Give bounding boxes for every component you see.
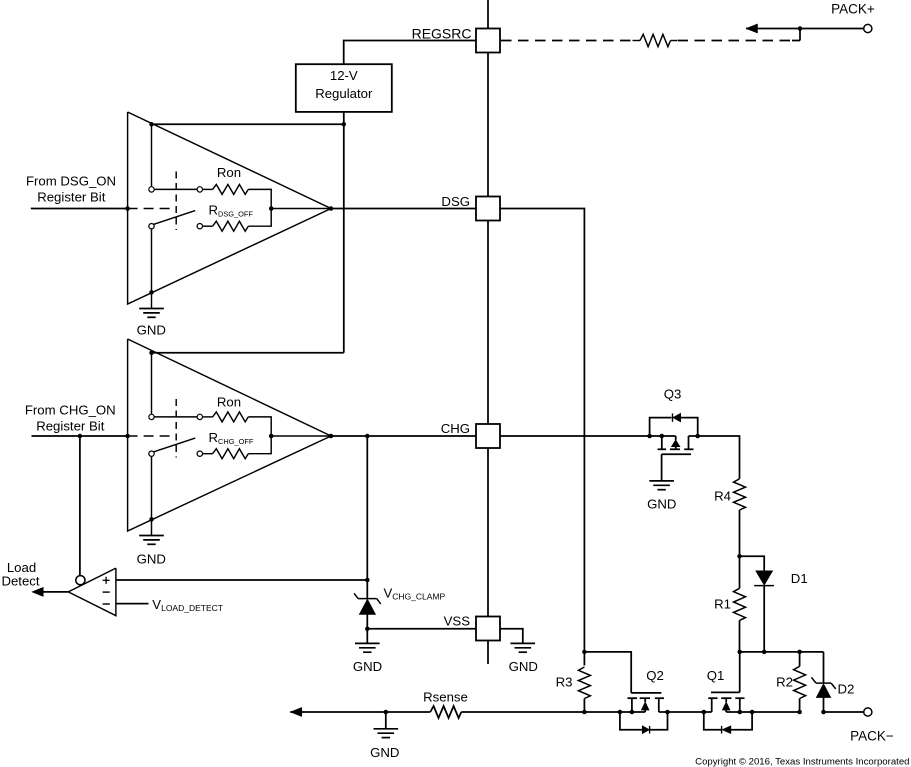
wire (dashed): switch control link (175, 399, 177, 458)
wire (dashed): control into driver (128, 435, 172, 437)
junction: D1 at gate node (762, 650, 767, 655)
wire: rail segment Q2 drain (659, 711, 704, 713)
wire: VSS pin to ground (500, 629, 523, 644)
arrow: to battery negative (290, 707, 302, 716)
junction: PACK+ dashed tap (798, 26, 803, 31)
switch contact (upper) (149, 187, 154, 192)
wire: gate feed from R1/D1 node (739, 652, 741, 693)
svg-text:D1: D1 (791, 571, 808, 586)
comparator input bubble (76, 576, 85, 585)
wire: rail to DSG driver supply (152, 123, 344, 125)
svg-text:From CHG_ON: From CHG_ON (25, 403, 116, 418)
wire: ground stem (151, 519, 153, 535)
diode Q3 body: anode triangle (673, 413, 681, 421)
ground (139, 535, 164, 537)
wire: rail segment Q1 left (704, 711, 712, 713)
wire (203, 225, 213, 227)
node DSG pin box (476, 197, 500, 221)
driver triangle body (128, 339, 331, 531)
svg-text:GND: GND (353, 659, 382, 674)
wire: ground stem (385, 712, 387, 729)
wire (203, 188, 213, 190)
arrow: load detect output (32, 587, 44, 596)
resistor R1 (739, 556, 741, 588)
resistor R4 (734, 479, 746, 510)
wire: R4 to node (739, 510, 741, 556)
wire: rail to CHG driver supply (152, 352, 344, 354)
wire (dashed): control into driver (128, 208, 172, 210)
wire: clamp node to VSS pin (367, 628, 476, 630)
wire: D2 to rail (823, 698, 825, 713)
wire: arrow line toward REGSRC (746, 28, 800, 30)
comparator U (load detect) (68, 568, 116, 616)
wire: CHG net down to clamp (366, 436, 368, 580)
junction: DSG gate node (582, 650, 587, 655)
wire (366, 614, 368, 629)
wire: closed switch path to Ron (154, 416, 197, 418)
junction: clamp node (365, 578, 370, 583)
wire (671, 40, 678, 42)
zener VCHG_CLAMP body (359, 599, 375, 614)
junction: VSS node (365, 627, 370, 632)
terminal PACK+ (864, 24, 872, 32)
wire: REGSRC to regulator (344, 41, 476, 65)
ground (649, 480, 674, 482)
wire (203, 453, 213, 455)
svg-text:GND: GND (370, 745, 399, 760)
svg-text:Rsense: Rsense (423, 689, 468, 704)
diode Q2 body: anode triangle (642, 726, 649, 734)
wire: gate feed from DSG node (584, 652, 631, 693)
wire: CHG pin to Q3 (500, 435, 676, 437)
svg-text:Detect: Detect (1, 573, 39, 588)
ground (139, 308, 164, 310)
resistor Roff (213, 221, 249, 231)
junction: R2 top (797, 650, 802, 655)
wire: rail to PACK- (824, 711, 864, 713)
ground (511, 642, 536, 644)
svg-text:PACK−: PACK− (850, 729, 894, 744)
wire: resistor outputs join (248, 417, 271, 454)
junction: system ground tap (384, 710, 389, 715)
12-V Regulator block (296, 64, 392, 112)
wire (203, 416, 213, 418)
svg-text:12-V: 12-V (330, 68, 358, 83)
wire (dashed): REGSRC to resistor (501, 40, 634, 42)
junction: Q3 bypass left (647, 434, 652, 439)
wire (dashed): resistor to PACK+ jog (678, 40, 794, 42)
junction: R2 rail (797, 710, 802, 715)
junction: Q2 bypass left (618, 710, 623, 715)
resistor Ron terminal (197, 187, 202, 192)
wire: comparator output (42, 591, 68, 593)
junction: Q3 bypass right / drain (695, 434, 700, 439)
wire: bottom rail left (290, 711, 430, 713)
junction: Q1 bypass right (750, 710, 755, 715)
wire: rail down to CHG driver (343, 124, 345, 352)
wire: node to D2 (823, 652, 825, 683)
zener D2 cathode bar (816, 682, 831, 684)
transistor Q3 channel segments (658, 448, 667, 450)
junction: D2 rail (821, 710, 826, 715)
wire: Q3 gate to ground (661, 454, 663, 481)
junction: CHG driver supply tap (149, 351, 154, 356)
junction: DSG driver supply tap (149, 122, 154, 127)
svg-text:Copyright © 2016, Texas Instru: Copyright © 2016, Texas Instruments Inco… (695, 757, 909, 767)
minus mark 1 (103, 591, 110, 593)
transistor Q3 body arrow (675, 436, 677, 440)
ground (355, 642, 380, 644)
junction: R4/R1/D1 node (737, 554, 742, 559)
wire: R3 stem top (583, 652, 585, 666)
junction: driver ground node (149, 290, 154, 295)
wire: CHG_ON to comparator (79, 436, 81, 576)
transistor Q1 body arrow (722, 702, 730, 710)
junction: input at driver edge (125, 206, 130, 211)
wire: jog down from junction (799, 29, 801, 41)
svg-text:R2: R2 (776, 675, 793, 690)
junction: regulator rail split (342, 122, 347, 127)
transistor Q3 gate bar (662, 453, 691, 455)
transistor Q2 channel segments (627, 697, 637, 699)
wire: switch common from supply (151, 124, 153, 186)
plus input mark (103, 579, 110, 581)
transistor Q3 drain contact + jog (688, 436, 690, 449)
wire: DSG pin to FET gate network (500, 209, 584, 652)
wire: DSG_ON input (31, 208, 128, 210)
diode D1 body (756, 571, 773, 585)
resistor Roff terminal (197, 224, 202, 229)
wire: main vertical bus (487, 0, 489, 664)
svg-text:Q2: Q2 (646, 668, 664, 683)
transistor Q1 gate bar (711, 691, 740, 693)
zener VCHG_CLAMP cathode bar (358, 598, 377, 600)
wire: lower contact to ground edge (151, 229, 153, 293)
junction: driver ground node (149, 517, 154, 522)
wire: ground stem (151, 292, 153, 308)
transistor Q1 source contact (711, 698, 713, 712)
arrow: current direction left (746, 24, 758, 33)
svg-text:PACK+: PACK+ (831, 2, 875, 17)
diode Q2 body: cathode bar (649, 726, 651, 734)
junction: driver output (329, 206, 334, 211)
wire: VLOAD_DETECT input (116, 603, 149, 605)
junction: load detect tap (78, 434, 83, 439)
svg-text:GND: GND (137, 322, 166, 337)
wire (633, 40, 641, 42)
wire: D1 to gate node (763, 586, 765, 652)
diode: Q1 body diode loop (704, 712, 722, 730)
svg-text:Register Bit: Register Bit (37, 190, 105, 205)
svg-text:Ron: Ron (217, 165, 241, 180)
wire: Q3 drain to R4 (698, 436, 740, 479)
wire: plus input from CHG net (116, 579, 367, 581)
resistor R2 (799, 652, 801, 666)
svg-text:Q3: Q3 (664, 387, 682, 402)
junction: R1/Q1 gate node (737, 650, 742, 655)
junction: Q1 drain (738, 710, 743, 715)
diode: Q2 body diode loop (620, 712, 643, 730)
diode D1 cathode bar (754, 585, 774, 587)
wire: tap to apex (271, 208, 331, 210)
wire: body to rail (644, 710, 646, 712)
node VSS pin box (476, 617, 500, 641)
svg-text:R3: R3 (556, 675, 573, 690)
junction: CHG clamp tap (365, 434, 370, 439)
wire: regulator output down (343, 112, 345, 124)
minus mark 2 (103, 603, 110, 605)
transistor Q2 body arrow (641, 702, 649, 710)
node REGSRC pin box (476, 29, 500, 53)
diode Q1 body: cathode bar (721, 726, 723, 734)
svg-text:VSS: VSS (444, 614, 471, 629)
wire: clamp ground stem (366, 629, 368, 644)
switch arm (open) (154, 211, 195, 225)
svg-text:GND: GND (647, 497, 676, 512)
junction: resistor tap (269, 206, 274, 211)
wire (792, 40, 800, 42)
svg-text:GND: GND (137, 551, 166, 566)
junction: driver output (329, 434, 334, 439)
wire: rail to Q2 (461, 711, 645, 713)
svg-text:Regulator: Regulator (315, 86, 373, 101)
switch arm (open) (154, 438, 195, 452)
svg-text:Q1: Q1 (707, 668, 725, 683)
zener D2 body (816, 684, 830, 698)
node CHG pin box (476, 424, 500, 448)
wire: switch common from supply (151, 353, 153, 414)
transistor Q3 source contact (661, 436, 663, 449)
driver triangle body (128, 112, 331, 304)
wire: tap to apex (271, 435, 331, 437)
transistor Q1 channel segments (708, 697, 717, 699)
terminal PACK- (864, 708, 872, 716)
transistor Q2 source contact (631, 698, 633, 712)
diode Q3 body: cathode bar (672, 413, 674, 421)
wire: body to rail (725, 710, 727, 712)
resistor Ron terminal (197, 414, 202, 419)
wire: closed switch path to Ron (154, 188, 197, 190)
wire (dashed): switch control link (175, 172, 177, 231)
junction: Q2 bypass right (665, 710, 670, 715)
svg-text:From DSG_ON: From DSG_ON (26, 174, 116, 189)
svg-text:Ron: Ron (217, 394, 241, 409)
junction: resistor tap (269, 434, 274, 439)
wire: R2 to rail (799, 699, 801, 713)
resistor R3 (578, 667, 590, 699)
svg-text:R1: R1 (714, 597, 731, 612)
svg-text:CHG: CHG (441, 421, 470, 436)
transistor Q1 drain contact (739, 698, 741, 712)
resistor: REGSRC series element (640, 34, 671, 46)
wire: gate node bus (740, 651, 824, 653)
resistor Roff terminal (197, 451, 202, 456)
resistor Rsense (430, 706, 461, 718)
wire: rail segment Q1 right (726, 711, 799, 713)
transistor Q2 drain contact (658, 698, 660, 712)
wire: R1 to gate node (739, 620, 741, 652)
wire: CHG_ON input (32, 435, 128, 437)
resistor Ron (213, 412, 249, 422)
switch contact (lower) (149, 224, 154, 229)
svg-text:Register Bit: Register Bit (36, 419, 104, 434)
junction: Q3 source (660, 434, 665, 439)
resistor Roff (213, 449, 249, 459)
resistor Ron (213, 184, 249, 194)
diode: Q3 body diode loop (650, 418, 672, 436)
svg-text:GND: GND (509, 659, 538, 674)
switch contact (upper) (149, 414, 154, 419)
wire: DSG driver output to pin (331, 208, 476, 210)
junction: Q2 source (630, 710, 635, 715)
wire: node to D1 (740, 556, 765, 571)
junction: R3 rail (582, 710, 587, 715)
wire: resistor outputs join (248, 189, 271, 226)
diode Q1 body: anode triangle (722, 726, 731, 734)
ground (374, 728, 399, 730)
wire: R3 to rail (583, 699, 585, 713)
svg-text:R4: R4 (714, 489, 731, 504)
wire: lower contact to ground edge (151, 456, 153, 519)
svg-text:REGSRC: REGSRC (412, 26, 472, 42)
wire (366, 580, 368, 599)
svg-text:DSG: DSG (441, 194, 470, 209)
junction: Q1 bypass left (702, 710, 707, 715)
switch contact (lower) (149, 451, 154, 456)
transistor Q2 gate bar (631, 692, 661, 694)
wire: CHG driver output to pin (331, 435, 476, 437)
wire: PACK+ to junction (800, 28, 864, 30)
svg-text:D2: D2 (838, 682, 855, 697)
junction: input at driver edge (125, 434, 130, 439)
